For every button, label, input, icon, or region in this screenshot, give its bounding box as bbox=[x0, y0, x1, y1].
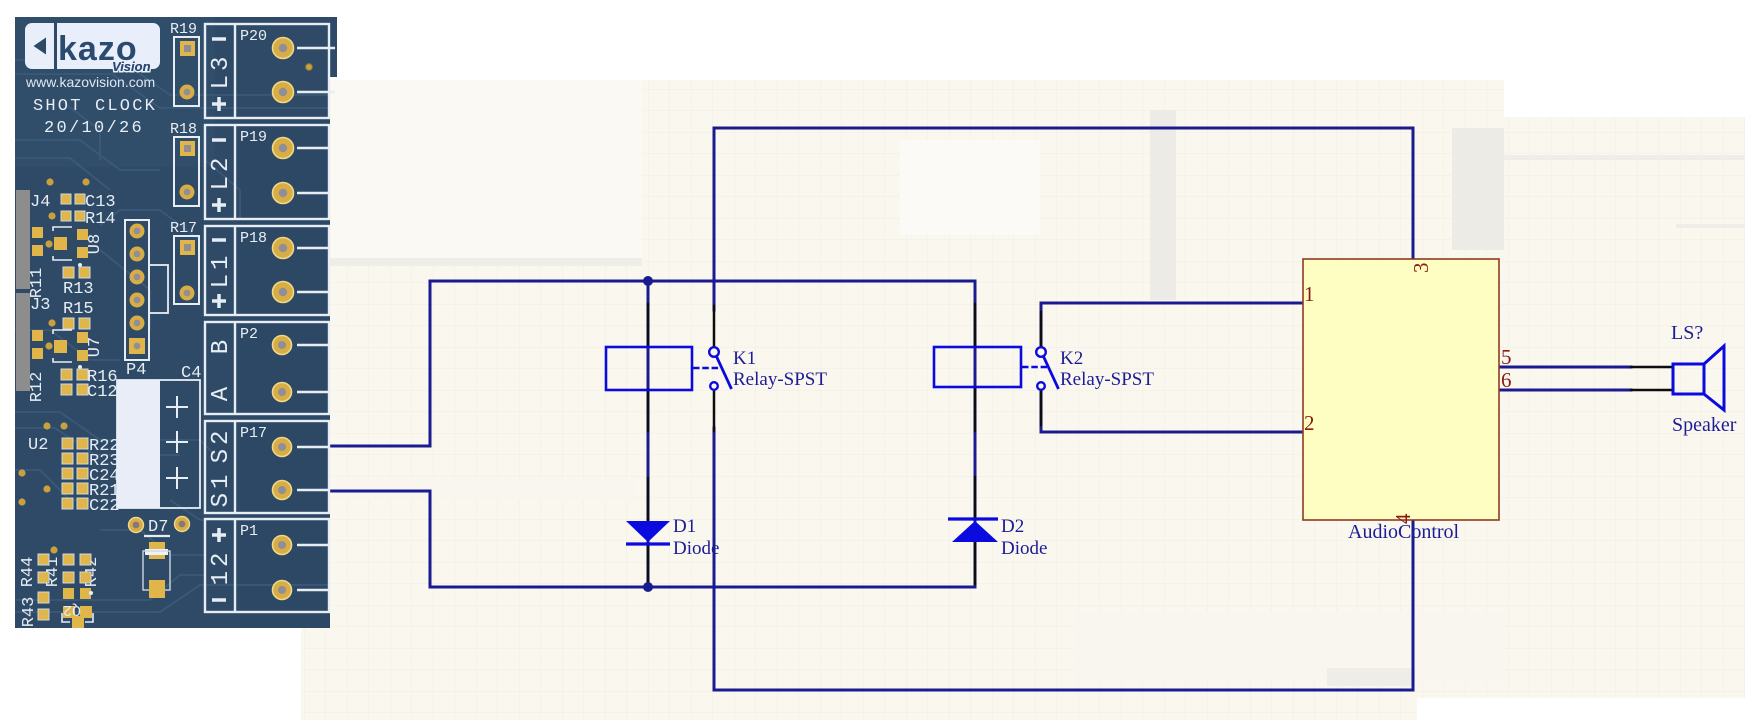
svg-text:Diode: Diode bbox=[1001, 538, 1047, 559]
board lighter sheen top-left bbox=[15, 17, 215, 167]
resistor group R44/R41/R42 bbox=[19, 546, 102, 587]
white margin band top bbox=[330, 0, 1505, 80]
capacitor C22 bbox=[18, 498, 25, 505]
diode D2 bbox=[948, 519, 998, 542]
svg-text:3: 3 bbox=[1409, 263, 1433, 274]
transistor Q2 bbox=[62, 588, 93, 628]
pin stub: D1 pins (black) bbox=[647, 478, 650, 521]
svg-text:5: 5 bbox=[1501, 345, 1512, 369]
pin stub: K1 coil pins (black) bbox=[647, 304, 650, 347]
svg-text:www.kazovision.com: www.kazovision.com bbox=[25, 74, 155, 90]
svg-text:P20: P20 bbox=[240, 28, 267, 45]
pad P1-2 bbox=[273, 581, 292, 600]
relay K1 switch bbox=[693, 347, 732, 390]
label D1 Diode bbox=[673, 516, 719, 559]
logo plate white box bbox=[25, 23, 160, 74]
wire: AudioControl pin 5 to speaker bbox=[1500, 366, 1631, 369]
gray line far right 2 bbox=[1676, 224, 1745, 228]
svg-text:A: A bbox=[208, 383, 235, 401]
svg-text:L3: L3 bbox=[208, 53, 235, 90]
pin stub: speaker pins (black) bbox=[1631, 366, 1672, 369]
svg-text:S2: S2 bbox=[208, 427, 235, 464]
svg-text:D2: D2 bbox=[1001, 516, 1024, 537]
IC U2 rows bbox=[18, 422, 119, 516]
connector S2/S1 / P17 outline bbox=[205, 421, 329, 513]
gray artifact vertical band mid bbox=[1150, 110, 1176, 300]
capacitor C4 bbox=[117, 364, 201, 508]
svg-text:1: 1 bbox=[1304, 282, 1315, 306]
svg-text:L1: L1 bbox=[208, 252, 235, 289]
label K1 Relay-SPST bbox=[733, 348, 827, 390]
logo back-arrow glyph bbox=[34, 38, 47, 55]
svg-text:AudioControl: AudioControl bbox=[1348, 521, 1460, 543]
svg-text:R43: R43 bbox=[20, 597, 39, 628]
pin stub: K2 switch pins (black) bbox=[1040, 312, 1043, 348]
wire: big loop pin3 to pin4 of AudioControl through K1 switch bbox=[714, 128, 1413, 310]
wire: net S2 from PCB pad P17-1 to node A top rail bbox=[330, 281, 975, 446]
svg-text:S1: S1 bbox=[208, 471, 235, 508]
capacitor C12 bbox=[61, 383, 118, 402]
relay K2 coil bbox=[934, 347, 1021, 387]
pin stub: K1 switch pins (black) bbox=[713, 306, 716, 348]
svg-text:J3: J3 bbox=[30, 296, 50, 315]
relay K2 switch bbox=[1022, 347, 1059, 390]
pale window artifact left-mid bbox=[330, 80, 642, 258]
svg-text:2: 2 bbox=[1304, 411, 1315, 435]
gray artifact band under pale region bbox=[330, 258, 642, 266]
PCB board substrate bbox=[15, 17, 330, 628]
svg-text:P19: P19 bbox=[240, 129, 267, 146]
resistor R18 bbox=[170, 121, 199, 206]
PCB board notch top-right bbox=[329, 17, 337, 77]
speaker LS? symbol bbox=[1673, 346, 1724, 410]
svg-text:U7: U7 bbox=[86, 337, 105, 357]
connector J4 (gray) bbox=[16, 190, 30, 289]
IC U7 bbox=[32, 330, 105, 369]
svg-text:L2: L2 bbox=[208, 154, 235, 191]
svg-text:Relay-SPST: Relay-SPST bbox=[733, 369, 827, 390]
CONNECTOR_BLOCKS bbox=[170, 21, 335, 612]
wire: AudioControl pin 6 to speaker bbox=[1500, 389, 1631, 392]
capacitor C13 bbox=[61, 193, 116, 212]
svg-text:R17: R17 bbox=[170, 220, 197, 237]
pad P17-1 bbox=[273, 438, 292, 457]
pad P19-1 bbox=[273, 138, 294, 159]
connector L1 / P18 outline bbox=[205, 226, 329, 315]
connector L2 / P19 outline bbox=[205, 125, 329, 219]
svg-text:K1: K1 bbox=[733, 348, 756, 369]
svg-text:6: 6 bbox=[1501, 368, 1512, 392]
wire: K2 switch top to AudioControl pin 1 bbox=[1041, 303, 1302, 348]
IC U8 bbox=[32, 227, 105, 267]
svg-text:R12: R12 bbox=[28, 372, 47, 403]
svg-text:P18: P18 bbox=[240, 230, 267, 247]
svg-text:R11: R11 bbox=[28, 268, 47, 299]
resistor R17 bbox=[170, 220, 199, 304]
pad P17-2 bbox=[273, 481, 292, 500]
svg-text:P1: P1 bbox=[240, 523, 258, 540]
faint gray smear above bottom wire bbox=[1327, 668, 1415, 686]
svg-text:K2: K2 bbox=[1060, 348, 1083, 369]
svg-text:C22: C22 bbox=[89, 497, 120, 516]
label K2 Relay-SPST bbox=[1060, 348, 1154, 390]
svg-text:R18: R18 bbox=[170, 121, 197, 138]
resistor R16 bbox=[61, 368, 118, 387]
diode D1 bbox=[626, 521, 670, 544]
header P4 bbox=[125, 220, 168, 380]
svg-text:C12: C12 bbox=[87, 383, 118, 402]
pale band above K2 bbox=[900, 140, 1040, 235]
svg-text:SHOT CLOCK: SHOT CLOCK bbox=[33, 97, 157, 116]
white margin top-right corner bbox=[1504, 0, 1745, 117]
SMD_COMPONENTS bbox=[16, 178, 201, 628]
wire: net S1 from PCB pad P17-2 to bottom rail bbox=[330, 491, 975, 587]
svg-text:Vision: Vision bbox=[112, 59, 151, 74]
svg-text:P2: P2 bbox=[240, 326, 258, 343]
gray artifact vertical band right of rect bbox=[1452, 128, 1504, 250]
pad P18-1 bbox=[273, 238, 294, 259]
pad P20-1 bbox=[273, 38, 294, 59]
svg-text:R13: R13 bbox=[63, 280, 94, 299]
svg-text:Diode: Diode bbox=[673, 538, 719, 559]
connector J3 (gray) bbox=[16, 293, 30, 391]
resistor R14 bbox=[48, 210, 115, 229]
pad P2-2 bbox=[273, 383, 292, 402]
resistor R15 bbox=[48, 300, 93, 329]
faint band bottom mid bbox=[1074, 612, 1504, 682]
pin stub: D2 pins (black) bbox=[974, 477, 977, 519]
svg-text:D1: D1 bbox=[673, 516, 696, 537]
pin stub: K2 coil pins (black) bbox=[974, 304, 977, 347]
svg-text:P4: P4 bbox=[126, 361, 146, 380]
gray line far right 1 bbox=[1504, 155, 1745, 160]
faint band left of D1 bbox=[335, 478, 635, 500]
svg-text:J4: J4 bbox=[30, 193, 50, 212]
capacitor C24 bbox=[18, 469, 25, 476]
diode D7 bbox=[129, 517, 190, 599]
svg-text:D7: D7 bbox=[148, 518, 168, 537]
white photo margin around PCB bbox=[0, 0, 336, 17]
resistor R21 bbox=[43, 485, 50, 492]
white margin bottom-right bbox=[1417, 698, 1745, 720]
copper traces bbox=[15, 60, 330, 612]
connector L3 / P20 outline bbox=[205, 24, 335, 118]
relay K1 coil bbox=[606, 347, 692, 390]
board darker right column bbox=[240, 120, 330, 628]
svg-text:U8: U8 bbox=[86, 234, 105, 254]
svg-text:Speaker: Speaker bbox=[1672, 414, 1737, 436]
resistor R19 bbox=[170, 21, 199, 106]
wire: K1 coil / D1 vertical branch bbox=[647, 281, 650, 587]
wire: K2 switch bottom to AudioControl pin 2 bbox=[1041, 389, 1302, 432]
pad P1-1 bbox=[273, 536, 292, 555]
IC U AudioControl body bbox=[1303, 259, 1499, 520]
PCB_LAYER bbox=[0, 0, 337, 720]
pad P20-2 bbox=[273, 82, 294, 103]
via near P20 bbox=[306, 64, 313, 71]
vias top bbox=[46, 178, 53, 185]
resistor R23 bbox=[62, 453, 73, 464]
svg-text:R14: R14 bbox=[85, 210, 116, 229]
resistor R22 bbox=[62, 438, 73, 449]
resistor R13 bbox=[63, 267, 94, 299]
pad P18-2 bbox=[273, 282, 294, 303]
junction node at D1/K1 top rail bbox=[643, 276, 653, 286]
junction node at D1/K1 bottom rail bbox=[643, 582, 653, 592]
svg-text:Relay-SPST: Relay-SPST bbox=[1060, 369, 1154, 390]
connector B/A / P2 outline bbox=[205, 322, 329, 414]
pad P19-2 bbox=[273, 183, 294, 204]
svg-text:B: B bbox=[208, 336, 235, 354]
svg-text:U2: U2 bbox=[28, 436, 48, 455]
svg-text:Q2: Q2 bbox=[63, 601, 81, 618]
label D2 Diode bbox=[1001, 516, 1047, 559]
svg-text:20/10/26: 20/10/26 bbox=[44, 119, 144, 138]
pad P2-1 bbox=[273, 336, 292, 355]
svg-text:R15: R15 bbox=[63, 300, 94, 319]
svg-text:R44: R44 bbox=[19, 557, 38, 588]
svg-text:12: 12 bbox=[208, 549, 235, 586]
wire: K2 coil / D2 vertical branch bbox=[974, 281, 977, 587]
svg-text:R19: R19 bbox=[170, 21, 197, 38]
svg-text:P17: P17 bbox=[240, 425, 267, 442]
connector 12 / P1 outline bbox=[205, 519, 329, 612]
resistor R43 bbox=[20, 592, 49, 627]
svg-text:LS?: LS? bbox=[1671, 322, 1703, 344]
